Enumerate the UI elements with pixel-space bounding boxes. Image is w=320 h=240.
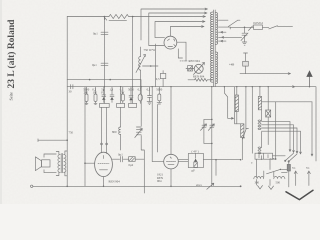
wire nested line 2 xyxy=(149,12,207,46)
wire drop x85 xyxy=(84,87,86,187)
capacitor box C13 xyxy=(129,103,137,107)
wire drop x132.6 xyxy=(132,17,134,87)
tube U2 oscillator xyxy=(194,64,203,73)
tube V3 xyxy=(164,154,179,169)
wire drop x171 xyxy=(170,87,172,155)
wire L1 tap right xyxy=(143,65,159,67)
capacitor C7 xyxy=(129,87,133,97)
svg-text:( 4V ): ( 4V ) xyxy=(192,149,199,153)
node bus junctions xyxy=(104,86,310,87)
inductor L1 variable xyxy=(140,47,142,57)
svg-text:30: 30 xyxy=(69,90,73,94)
wire top main right xyxy=(134,16,206,18)
trimmer comb C14 xyxy=(140,87,142,126)
svg-text:904: 904 xyxy=(157,179,162,183)
switch S1 xyxy=(219,20,241,26)
svg-text:800: 800 xyxy=(112,130,117,134)
wire U2 links xyxy=(180,61,194,69)
wire HT line xyxy=(262,101,313,103)
wire nested line 4 xyxy=(170,26,204,37)
resistor R9 with arrow xyxy=(195,153,197,158)
resistor R10 dropper xyxy=(288,161,290,165)
capacitor box C12 xyxy=(117,103,125,107)
svg-text:750 W/W: 750 W/W xyxy=(144,48,156,52)
wire left tap xyxy=(38,139,67,142)
transformer T1 right winding upper xyxy=(216,12,218,44)
component row resistor R4 xyxy=(86,87,88,94)
wire top main xyxy=(67,16,109,18)
capacitor C6 electrolytic xyxy=(110,87,114,97)
wire U1 anode right xyxy=(177,42,186,61)
capacitor C15 series xyxy=(112,156,128,162)
tube small V4 xyxy=(138,94,142,101)
resistor R11 box xyxy=(160,73,165,78)
resistor R6 xyxy=(122,87,124,94)
ground xyxy=(242,42,247,45)
heater drops xyxy=(294,171,297,186)
svg-text:REN 904: REN 904 xyxy=(109,180,121,184)
transformer T1 right winding lower xyxy=(216,52,218,83)
component row resistor R5 xyxy=(95,87,97,94)
wire mid line xyxy=(178,159,240,161)
svg-text:500: 500 xyxy=(276,181,281,185)
trimmer capacitor C10 xyxy=(208,124,214,131)
svg-text:Seite: Seite xyxy=(9,92,14,101)
box X1 xyxy=(266,110,271,117)
wire coil feeds xyxy=(257,159,274,177)
transformer T2 right winding xyxy=(64,155,66,173)
inductor L4 xyxy=(274,177,285,179)
capacitor C1 0u1 xyxy=(101,32,108,34)
wire left rail xyxy=(66,17,68,187)
tube U1 xyxy=(164,36,177,49)
switch S4 xyxy=(267,169,282,174)
big V mark xyxy=(286,190,313,199)
wire T1 tap arrows xyxy=(219,31,227,33)
capacitor C3 xyxy=(242,27,247,42)
svg-text:REN 904: REN 904 xyxy=(189,59,201,63)
svg-text:0µ1: 0µ1 xyxy=(92,63,97,67)
terminal xyxy=(31,185,33,187)
svg-text:0µ2: 0µ2 xyxy=(129,163,134,167)
wire drop x211.8 long xyxy=(211,87,213,187)
svg-text:V1: V1 xyxy=(292,166,296,170)
transformer T2 leads xyxy=(56,151,67,176)
wire drop x155.5 xyxy=(155,44,157,87)
svg-text:1W: 1W xyxy=(93,90,98,94)
inductor L3 xyxy=(254,176,264,178)
wire grid drop xyxy=(103,17,105,87)
svg-text:5000: 5000 xyxy=(156,88,163,92)
wire drops right block xyxy=(246,87,268,154)
tube V2 output xyxy=(95,152,113,176)
resistor R2 hatched box xyxy=(188,66,193,71)
transformer T1 core xyxy=(214,10,216,87)
wire right edge drops xyxy=(311,102,313,156)
heater arrows xyxy=(258,186,274,190)
wire R1 underline bar xyxy=(109,20,127,22)
resistor R1 xyxy=(109,15,134,19)
svg-text:µF: µF xyxy=(192,169,196,173)
svg-text:etwa: etwa xyxy=(196,183,202,187)
wire mains feed xyxy=(230,26,253,28)
wire U1 cathode xyxy=(178,49,182,58)
speaker frame xyxy=(44,154,56,173)
svg-text:2W: 2W xyxy=(84,90,89,94)
switch S2 xyxy=(263,26,293,29)
wire drop x155 to V3 xyxy=(152,87,164,162)
page title rotated "Seite 23 L (alt) Roland" xyxy=(6,19,17,101)
resistor R7 xyxy=(158,87,160,94)
bus A xyxy=(67,80,141,87)
inductor L2 800 xyxy=(120,107,122,127)
winding W3 hatched xyxy=(259,87,261,97)
capacitor C4 series 30 xyxy=(71,85,73,89)
wire nested line 1 xyxy=(141,8,208,40)
capacitor C8 xyxy=(147,87,152,105)
svg-text:5000: 5000 xyxy=(128,88,135,92)
transformer T2 core xyxy=(61,153,62,172)
mains plug arrow xyxy=(309,77,311,87)
capacitor C2 0u1 xyxy=(101,63,108,65)
wire drop x224 jog xyxy=(224,87,233,120)
wire heater line xyxy=(33,185,241,187)
wire tube grid leads xyxy=(102,107,107,153)
transformer T3 winding upper xyxy=(261,110,263,121)
transformer T3 winding lower xyxy=(261,132,263,148)
switch S3 xyxy=(285,153,297,161)
padder loop xyxy=(204,119,212,143)
svg-text:+4B: +4B xyxy=(229,62,234,66)
transformer T2 left winding xyxy=(58,155,60,173)
capacitor C5 electrolytic xyxy=(102,87,106,97)
transformer T3 taps xyxy=(262,122,291,152)
svg-text:REN 904: REN 904 xyxy=(193,74,205,78)
resistor R3 above bus xyxy=(188,78,212,81)
wire tube bottom lead xyxy=(103,177,105,187)
wire nested line 3 xyxy=(155,21,205,38)
wire HT mid line xyxy=(240,73,291,75)
resistor R8 box xyxy=(129,157,136,162)
transformer T1 left winding xyxy=(210,12,213,82)
bus B xyxy=(67,86,316,161)
speaker SP xyxy=(35,157,41,171)
battery B2 xyxy=(255,153,273,159)
wire T1 tap y27 xyxy=(219,27,231,29)
switch S6 etwa xyxy=(207,183,214,189)
svg-text:23 L (alt) Roland: 23 L (alt) Roland xyxy=(6,19,17,89)
switch S5 xyxy=(243,129,249,140)
grid loop xyxy=(188,153,203,167)
wire tube left lead xyxy=(85,162,95,164)
node top junction xyxy=(104,16,106,18)
svg-text:0µ1: 0µ1 xyxy=(93,32,98,36)
fuse F1 xyxy=(254,25,263,29)
winding W2 xyxy=(241,124,244,138)
wire V3 leads xyxy=(170,169,172,186)
label +4B xyxy=(243,61,249,66)
capacitor box C11 xyxy=(100,103,110,107)
trimmer capacitor C9 xyxy=(201,124,207,131)
svg-text:V1: V1 xyxy=(306,166,310,170)
svg-text:0µ1: 0µ1 xyxy=(118,153,123,157)
svg-text:750: 750 xyxy=(69,131,74,135)
winding W1 xyxy=(236,87,238,95)
svg-text:300: 300 xyxy=(255,181,260,185)
